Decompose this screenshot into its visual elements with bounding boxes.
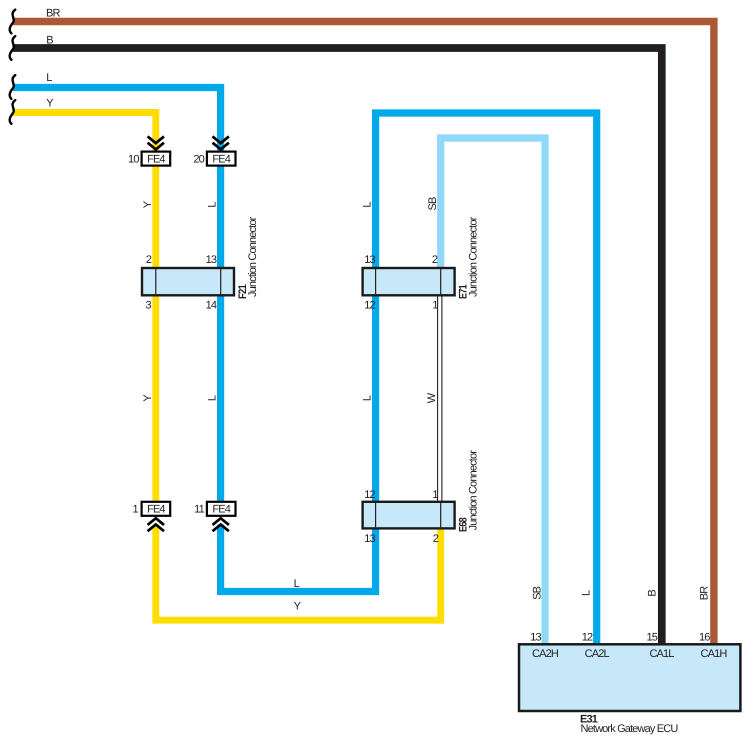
svg-text:CA1L: CA1L: [649, 648, 674, 660]
svg-text:FE4: FE4: [212, 504, 230, 516]
svg-text:11: 11: [194, 504, 204, 516]
svg-text:Junction Connector: Junction Connector: [468, 216, 480, 297]
svg-text:L: L: [294, 578, 300, 590]
svg-text:Y: Y: [294, 601, 302, 613]
svg-text:1: 1: [133, 504, 139, 516]
svg-text:10: 10: [128, 154, 139, 166]
break squiggle on wire Y: [10, 100, 16, 124]
svg-text:SB: SB: [532, 586, 544, 599]
connector FE4 pin 20 box: [207, 152, 236, 166]
svg-text:1: 1: [432, 489, 438, 501]
double chevron arrow into connector FE4 20 (down): [213, 136, 229, 149]
svg-text:CA2H: CA2H: [532, 648, 559, 660]
svg-text:13: 13: [364, 533, 375, 545]
svg-text:FE4: FE4: [147, 154, 165, 166]
svg-text:CA1H: CA1H: [701, 648, 728, 660]
wire L (blue) main run: left entry, down via FE4/F21, bottom run, up via E68/E71, top-mid run, down to E31 CA2L: [13, 88, 597, 645]
junction connector E68 box: [363, 502, 455, 529]
svg-text:12: 12: [364, 300, 375, 312]
wire SB (sky blue): from E71 pin 2 up, right, down to E31 CA2H: [441, 138, 545, 644]
junction connector F21 box: [142, 268, 234, 295]
svg-text:L: L: [207, 395, 219, 401]
svg-text:2: 2: [433, 533, 439, 545]
svg-text:BR: BR: [46, 8, 60, 20]
double chevron arrow into connector FE4 10 (down): [148, 136, 164, 149]
break squiggle on wire BR: [10, 10, 16, 34]
svg-text:BR: BR: [699, 586, 711, 600]
svg-text:16: 16: [699, 631, 710, 643]
svg-text:12: 12: [364, 489, 375, 501]
svg-text:Junction Connector: Junction Connector: [247, 216, 259, 297]
double chevron arrow out of connector FE4 11 (up): [213, 518, 229, 531]
svg-text:13: 13: [206, 254, 217, 266]
svg-text:L: L: [207, 202, 219, 208]
break squiggle on wire L: [10, 75, 16, 99]
svg-text:CA2L: CA2L: [585, 648, 610, 660]
svg-text:Y: Y: [142, 200, 154, 208]
svg-text:SB: SB: [427, 197, 439, 210]
svg-text:13: 13: [530, 631, 541, 643]
svg-text:14: 14: [206, 300, 217, 312]
svg-text:20: 20: [193, 154, 204, 166]
svg-text:Y: Y: [46, 98, 54, 110]
connector FE4 pin 10 box: [142, 152, 171, 166]
svg-text:Network Gateway ECU: Network Gateway ECU: [581, 723, 679, 735]
svg-text:L: L: [46, 72, 52, 84]
svg-text:15: 15: [646, 631, 657, 643]
svg-text:13: 13: [364, 254, 375, 266]
svg-text:Y: Y: [142, 394, 154, 402]
svg-text:L: L: [362, 395, 374, 401]
wire W (white, thin double line) from E71 pin 1 to E68 pin 1: [438, 294, 442, 502]
connector FE4 pin 1 box: [142, 502, 171, 516]
svg-text:FE4: FE4: [212, 154, 230, 166]
svg-text:12: 12: [582, 631, 593, 643]
svg-text:3: 3: [146, 300, 152, 312]
svg-text:Junction Connector: Junction Connector: [468, 450, 480, 531]
double chevron arrow out of connector FE4 1 (up): [148, 518, 164, 531]
wire Y (yellow): left entry, down via FE4/F21, bottom run, up to E68 pin 2: [13, 113, 441, 621]
svg-text:1: 1: [432, 300, 438, 312]
connector FE4 pin 11 box: [207, 502, 236, 516]
svg-text:L: L: [581, 590, 593, 596]
ECU E31 box: [519, 644, 740, 711]
svg-text:W: W: [426, 392, 438, 403]
svg-text:B: B: [647, 590, 659, 597]
svg-text:L: L: [362, 202, 374, 208]
svg-text:2: 2: [146, 254, 152, 266]
svg-text:2: 2: [432, 254, 438, 266]
break squiggle on wire B: [10, 36, 16, 60]
wire B (black) horizontal + vertical to E31 CA1L: [13, 48, 662, 644]
wire BR (brown) top horizontal + right vertical to E31 CA1H: [13, 22, 714, 645]
svg-text:B: B: [46, 35, 53, 47]
svg-text:FE4: FE4: [147, 504, 165, 516]
junction connector E71 box: [363, 268, 455, 295]
